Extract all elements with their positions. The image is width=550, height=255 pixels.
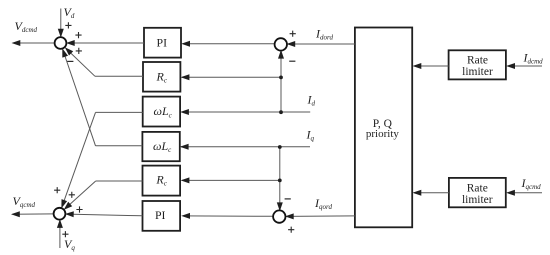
wire Vd input (vertical into upper-left summer) bbox=[60, 9, 62, 37]
wire Iqord: P,Q priority -> lower-right summer bbox=[287, 215, 355, 218]
svg-text:PI: PI bbox=[157, 35, 168, 49]
wire Vdcmd output arrow bbox=[13, 42, 55, 44]
wire Vq input (vertical into lower-left summer) bbox=[59, 221, 61, 248]
node dot at Iq line bbox=[278, 145, 282, 149]
wire lower-right summer -> PI lower input bbox=[183, 215, 273, 217]
sign - for wLc lower at upper-left summer bbox=[67, 60, 73, 62]
summing junction upper-right (d current error) bbox=[275, 38, 287, 50]
block Rate limiter (upper) bbox=[449, 50, 506, 79]
wire wLc upper input from node bbox=[182, 111, 282, 113]
wire Vqcmd output arrow bbox=[13, 213, 54, 215]
wire Rc lower output -> lower-left summer (bend + diagonal) bbox=[96, 180, 143, 182]
wire Idcmd input -> Rate limiter upper bbox=[508, 65, 542, 67]
svg-text:priority: priority bbox=[366, 128, 399, 140]
wire vertical Id node -> upper-right summer (minus input) bbox=[280, 51, 282, 112]
node dot at Rc upper tap bbox=[279, 76, 283, 80]
wire Rc upper input from node bbox=[182, 76, 281, 78]
svg-text:Rate: Rate bbox=[467, 182, 488, 194]
summing junction lower-left (Vqcmd) bbox=[54, 208, 66, 220]
svg-text:limiter: limiter bbox=[462, 194, 493, 206]
wire Rc upper output -> upper-left summer (bend + diagonal) bbox=[95, 75, 143, 77]
block Rate limiter (lower) bbox=[449, 178, 506, 207]
wire Rc lower input from node bbox=[182, 179, 280, 181]
summing junction upper-left (Vdcmd) bbox=[55, 37, 67, 49]
wire Id stub to the right bbox=[281, 111, 310, 113]
block PI (upper, d-axis PI controller) bbox=[144, 28, 181, 58]
wire wLc lower input from node bbox=[181, 146, 280, 148]
sign + for Idord at upper-right summer bbox=[290, 31, 296, 37]
node dot at Id line bbox=[279, 110, 283, 114]
sign + for PI upper at upper-left summer bbox=[75, 32, 81, 38]
block P,Q priority bbox=[355, 28, 412, 228]
sign + for Rc lower at lower-left summer bbox=[69, 192, 75, 198]
wire Rate limiter upper -> P,Q priority bbox=[414, 65, 449, 67]
sign + for Rc upper at upper-left summer bbox=[76, 48, 82, 54]
node dot at Rc lower tap bbox=[278, 179, 282, 183]
wire Rate limiter lower -> P,Q priority bbox=[414, 192, 449, 194]
sign - for Iq at lower-right summer bbox=[285, 198, 291, 200]
block PI (lower, q-axis PI controller) bbox=[143, 201, 181, 231]
block Rc (lower) bbox=[143, 166, 181, 196]
sign + for PI lower at lower-left summer bbox=[76, 206, 82, 212]
sign + for wLc upper at lower-left summer bbox=[54, 187, 60, 193]
svg-text:PI: PI bbox=[155, 208, 166, 222]
svg-text:Rate: Rate bbox=[467, 54, 488, 66]
wire Idord: P,Q priority -> upper-right summer bbox=[289, 43, 355, 45]
sign + for Vd at upper-left summer bbox=[65, 22, 71, 28]
svg-text:limiter: limiter bbox=[462, 66, 493, 78]
sign - for Id at upper-right summer bbox=[289, 60, 295, 62]
block wLc (upper) bbox=[143, 97, 180, 127]
wire wLc lower output -> upper-left summer (bend + long diagonal) bbox=[96, 145, 143, 147]
wire PI upper output -> upper-left summer bbox=[68, 42, 144, 44]
block Rc (upper) bbox=[143, 62, 180, 92]
wire Iq stub to the right bbox=[280, 146, 310, 148]
wire wLc upper output -> lower-left summer (bend + long diagonal) bbox=[96, 111, 143, 113]
sign + for Vq at lower-left summer bbox=[62, 231, 68, 237]
sign + for Iqord at lower-right summer bbox=[288, 227, 294, 233]
wire PI lower output -> lower-left summer bbox=[67, 214, 142, 216]
wire vertical Iq node -> lower-right summer (minus input) bbox=[279, 147, 281, 210]
summing junction lower-right (q current error) bbox=[273, 210, 285, 222]
wire upper-right summer -> PI upper input bbox=[183, 43, 275, 45]
block wLc (lower) bbox=[142, 132, 179, 161]
wire Iqcmd input -> Rate limiter lower bbox=[508, 192, 542, 194]
